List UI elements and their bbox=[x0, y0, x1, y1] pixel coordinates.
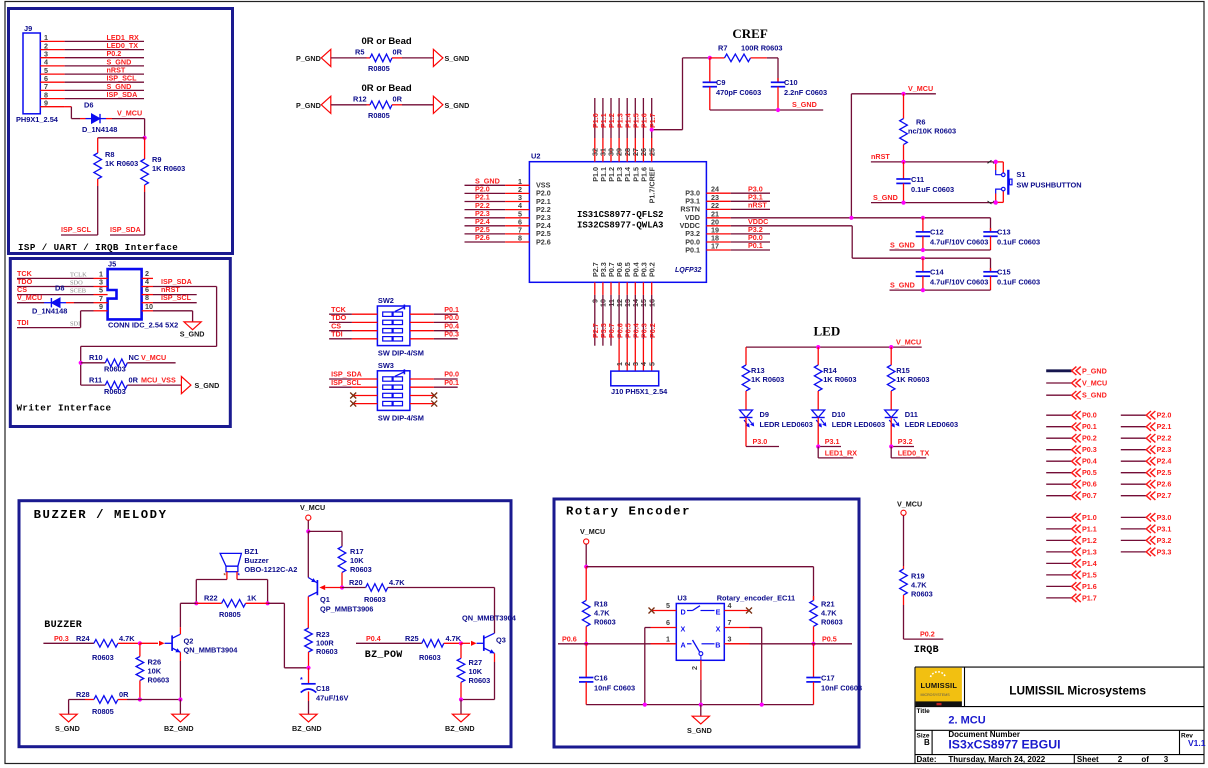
LED D9 LEDR LED0603 bbox=[740, 410, 753, 418]
svg-text:X: X bbox=[716, 624, 721, 633]
wire nRST row bbox=[871, 161, 996, 163]
node junction S_GND/C11 bbox=[901, 201, 905, 205]
svg-text:10: 10 bbox=[145, 302, 153, 311]
svg-text:P2.1: P2.1 bbox=[1157, 422, 1172, 431]
node junction R10 bbox=[79, 361, 83, 365]
svg-text:0R: 0R bbox=[129, 375, 139, 384]
svg-text:Thursday, March 24, 2022: Thursday, March 24, 2022 bbox=[948, 755, 1045, 764]
svg-text:R0603: R0603 bbox=[104, 365, 126, 374]
resistor R28 0R R0805 bbox=[69, 699, 85, 701]
node junction V_MCU/R6 bbox=[901, 92, 905, 96]
svg-text:P1.2: P1.2 bbox=[1082, 536, 1097, 545]
svg-text:R10: R10 bbox=[89, 353, 103, 362]
svg-text:of: of bbox=[1141, 755, 1149, 764]
svg-text:R27: R27 bbox=[469, 658, 483, 667]
U3 pin 3 wire bbox=[724, 643, 749, 645]
svg-text:S_GND: S_GND bbox=[55, 724, 80, 733]
svg-text:D10: D10 bbox=[832, 410, 846, 419]
svg-text:U3: U3 bbox=[677, 594, 686, 603]
svg-text:V_MCU: V_MCU bbox=[141, 353, 166, 362]
resistor R25 4.7K R0603 bbox=[422, 640, 444, 648]
resistor R19 4.7K R0603 bbox=[903, 566, 905, 569]
U2 left pins 1-8 bbox=[465, 184, 506, 186]
node junction VDD rail/V_MCU bbox=[849, 216, 853, 220]
svg-text:P2.7: P2.7 bbox=[1157, 491, 1172, 500]
svg-text:P2.6: P2.6 bbox=[475, 233, 490, 242]
svg-text:4.7K: 4.7K bbox=[389, 578, 405, 587]
node junction pin6 rail bbox=[643, 703, 647, 707]
ground arrow S_GND right of R12 bbox=[433, 96, 443, 113]
svg-text:P2.6: P2.6 bbox=[1157, 480, 1172, 489]
resistor R14 1K R0603 bbox=[817, 347, 819, 365]
section box Rotary Encoder bbox=[554, 499, 859, 747]
svg-text:P3.0: P3.0 bbox=[1157, 513, 1172, 522]
svg-text:P0.4: P0.4 bbox=[366, 634, 381, 643]
svg-text:*: * bbox=[238, 574, 241, 580]
svg-text:LED0_TX: LED0_TX bbox=[898, 448, 930, 457]
net label LED1_RX bbox=[817, 447, 819, 458]
U2 top pin wires P1.0-P1.7 bbox=[594, 98, 596, 138]
J5 pin 2 stub bbox=[142, 277, 153, 279]
LED D11 LEDR LED0603 bbox=[885, 410, 898, 418]
node junction pin2 rail bbox=[699, 703, 703, 707]
svg-text:S_GND: S_GND bbox=[445, 101, 470, 110]
svg-text:R13: R13 bbox=[751, 366, 765, 375]
svg-text:R21: R21 bbox=[821, 600, 835, 609]
port flag P2.7 bbox=[1121, 495, 1146, 497]
J5 pin 5 wire CS bbox=[94, 294, 108, 296]
ground S_GND under J5 pin10 bbox=[184, 322, 201, 330]
svg-text:QN_MMBT3904: QN_MMBT3904 bbox=[184, 646, 239, 655]
capacitor C17 10nF C0603 bbox=[813, 644, 815, 678]
resistor R5 0R R0805 bbox=[331, 57, 367, 59]
svg-text:Q1: Q1 bbox=[320, 595, 330, 604]
section box BUZZER / MELODY bbox=[19, 501, 511, 747]
svg-text:P0.1: P0.1 bbox=[748, 241, 763, 250]
J5 pin 8 wire ISP_SCL bbox=[142, 302, 153, 304]
svg-text:S_GND: S_GND bbox=[445, 54, 470, 63]
port flag P0.5 bbox=[1046, 472, 1071, 474]
svg-text:8: 8 bbox=[518, 234, 522, 243]
svg-text:Title: Title bbox=[917, 708, 931, 715]
svg-text:5: 5 bbox=[666, 601, 670, 610]
ground BZ_GND under Q3 bbox=[452, 714, 469, 722]
transistor Q1 QP_MMBT3906 bbox=[307, 531, 309, 577]
svg-text:X: X bbox=[681, 624, 686, 633]
wire ISP_SDA loop down to R10/R11 bbox=[216, 287, 218, 347]
svg-text:BZ1: BZ1 bbox=[244, 547, 258, 556]
diode D6 D_1N4148 bbox=[80, 118, 86, 120]
port flag P0.6 bbox=[1046, 483, 1071, 485]
svg-text:LED1_RX: LED1_RX bbox=[825, 448, 858, 457]
capacitor C13 0.1uF C0603 bbox=[990, 218, 992, 232]
node junction V_MCU rotary bbox=[584, 565, 588, 569]
capacitor C10 2.2nF C0603 bbox=[777, 58, 779, 82]
svg-text:Q2: Q2 bbox=[184, 637, 194, 646]
section box Writer Interface bbox=[10, 259, 230, 427]
transistor Q2 QN_MMBT3904 bbox=[159, 641, 165, 646]
svg-text:3: 3 bbox=[728, 634, 732, 643]
svg-text:V_MCU: V_MCU bbox=[580, 527, 605, 536]
svg-text:C10: C10 bbox=[784, 78, 798, 87]
svg-text:P3.2: P3.2 bbox=[898, 437, 913, 446]
svg-text:BZ_POW: BZ_POW bbox=[365, 650, 403, 661]
svg-text:P1.3: P1.3 bbox=[1082, 547, 1097, 556]
svg-text:*: * bbox=[300, 677, 303, 684]
wire S_GND rail under C14/C15 bbox=[890, 289, 991, 291]
svg-text:P0.6: P0.6 bbox=[562, 634, 577, 643]
svg-text:P0.2: P0.2 bbox=[648, 262, 657, 277]
resistor R21 4.7K R0603 bbox=[813, 567, 815, 601]
port flag P1.4 bbox=[1046, 562, 1071, 564]
svg-text:R0603: R0603 bbox=[350, 565, 372, 574]
svg-text:nc/10K R0603: nc/10K R0603 bbox=[908, 127, 956, 136]
SW2 row 3 wires bbox=[352, 330, 378, 332]
svg-text:LUMISSIL Microsystems: LUMISSIL Microsystems bbox=[1009, 684, 1146, 698]
svg-text:0R or Bead: 0R or Bead bbox=[362, 83, 412, 94]
switch S1 SW PUSHBUTTON bbox=[988, 160, 998, 163]
svg-text:TDI: TDI bbox=[17, 318, 29, 327]
J9 pin 1 wire bbox=[40, 40, 64, 42]
resistor R13 1K R0603 bbox=[745, 347, 747, 365]
svg-text:R0603: R0603 bbox=[821, 618, 843, 627]
svg-text:P0.0: P0.0 bbox=[1082, 411, 1097, 420]
node junction V_MCU/R8/R9 bbox=[143, 136, 147, 140]
port flag P1.5 bbox=[1046, 574, 1071, 576]
net label LED0_TX bbox=[890, 447, 892, 458]
wire Q2 emitter junction bbox=[140, 699, 181, 701]
wire to R17 bbox=[308, 530, 342, 532]
resistor R22 1K R0805 bbox=[196, 602, 221, 604]
svg-text:P2.5: P2.5 bbox=[1157, 468, 1172, 477]
svg-text:S_GND: S_GND bbox=[873, 193, 898, 202]
svg-text:4: 4 bbox=[728, 601, 732, 610]
svg-text:470pF C0603: 470pF C0603 bbox=[716, 88, 761, 97]
capacitor C14 4.7uF/10V C0603 bbox=[922, 258, 924, 272]
svg-text:BZ_GND: BZ_GND bbox=[292, 724, 322, 733]
capacitor C18 47uF/16V polarized bbox=[308, 668, 310, 684]
svg-text:P1.0: P1.0 bbox=[1082, 513, 1097, 522]
svg-text:CREF: CREF bbox=[732, 26, 767, 41]
svg-text:SDI: SDI bbox=[70, 321, 80, 328]
svg-text:C12: C12 bbox=[930, 228, 944, 237]
wire rotary bottom rail bbox=[586, 704, 813, 706]
svg-text:P3.1: P3.1 bbox=[825, 437, 840, 446]
resistor R24 4.7K R0603 bbox=[94, 640, 118, 648]
port flag P1.6 bbox=[1046, 585, 1071, 587]
svg-text:SW DIP-4/SM: SW DIP-4/SM bbox=[378, 413, 424, 422]
J5 pin 3 wire TDO bbox=[94, 286, 108, 288]
node junction nRST/C11 bbox=[901, 160, 905, 164]
wire P0.5 row bbox=[724, 643, 852, 645]
SW2 row 2 wires bbox=[352, 321, 378, 323]
svg-text:ISP_SCL: ISP_SCL bbox=[61, 225, 92, 234]
U3 pin 6 wire bbox=[651, 627, 677, 629]
svg-text:Sheet: Sheet bbox=[1077, 755, 1099, 764]
resistor R12 0R R0805 bbox=[331, 104, 367, 106]
SW2 row 1 wires bbox=[352, 313, 378, 315]
svg-text:P1.6: P1.6 bbox=[1082, 582, 1097, 591]
svg-text:B: B bbox=[924, 738, 930, 747]
svg-text:J10 PH5X1_2.54: J10 PH5X1_2.54 bbox=[611, 387, 668, 396]
svg-text:P0.1: P0.1 bbox=[444, 378, 459, 387]
svg-text:BZ_GND: BZ_GND bbox=[164, 724, 194, 733]
svg-text:SW PUSHBUTTON: SW PUSHBUTTON bbox=[1016, 181, 1081, 190]
J9 pin 2 wire bbox=[40, 49, 64, 51]
U2 bottom pins 9-16 bbox=[594, 282, 596, 295]
net label P3.0 bbox=[745, 418, 747, 447]
svg-text:SDO: SDO bbox=[70, 280, 83, 287]
svg-text:C18: C18 bbox=[316, 684, 330, 693]
svg-text:17: 17 bbox=[711, 242, 719, 251]
svg-text:IS3xCS8977 EBGUI: IS3xCS8977 EBGUI bbox=[948, 738, 1060, 752]
port flag P1.0 bbox=[1046, 516, 1071, 518]
power flag P_GND bbox=[1046, 369, 1071, 372]
svg-text:P0.2: P0.2 bbox=[648, 323, 657, 338]
svg-text:P0.6: P0.6 bbox=[1082, 480, 1097, 489]
port flag P2.0 bbox=[1121, 414, 1146, 416]
rotary encoder U3 Rotary_encoder_EC11 bbox=[676, 604, 724, 661]
U3 bottom switch symbol bbox=[687, 643, 692, 645]
capacitor C15 0.1uF C0603 bbox=[990, 258, 992, 272]
resistor R18 4.7K R0603 bbox=[585, 567, 587, 601]
J9 pin 3 wire bbox=[40, 57, 64, 59]
svg-text:D: D bbox=[681, 607, 686, 616]
logo LUMISSIL bbox=[916, 668, 962, 702]
svg-text:Rotary Encoder: Rotary Encoder bbox=[566, 505, 691, 519]
svg-text:10K: 10K bbox=[350, 556, 364, 565]
power flag V_MCU bbox=[1046, 382, 1071, 384]
svg-text:LQFP32: LQFP32 bbox=[675, 267, 702, 274]
svg-text:0R or Bead: 0R or Bead bbox=[362, 36, 412, 47]
MCU U2 IS31CS8977 body bbox=[529, 162, 706, 283]
node junction R21/P0.5 row bbox=[811, 642, 815, 646]
port flag P3.1 bbox=[1121, 528, 1146, 530]
svg-text:4.7uF/10V C0603: 4.7uF/10V C0603 bbox=[930, 278, 988, 287]
svg-text:C15: C15 bbox=[997, 268, 1011, 277]
svg-text:R26: R26 bbox=[148, 658, 162, 667]
J5 pin 1 wire TCK bbox=[94, 277, 108, 279]
svg-text:QP_MMBT3906: QP_MMBT3906 bbox=[320, 605, 373, 614]
svg-text:P0.5: P0.5 bbox=[1082, 468, 1097, 477]
svg-text:2: 2 bbox=[1118, 755, 1123, 764]
svg-text:IS31CS8977-QFLS2: IS31CS8977-QFLS2 bbox=[577, 210, 663, 220]
port flag P2.1 bbox=[1121, 426, 1146, 428]
node junction nRST/S1 bbox=[994, 160, 998, 164]
svg-text:Writer Interface: Writer Interface bbox=[17, 403, 112, 414]
U3 pin 1 wire bbox=[651, 643, 677, 645]
svg-text:S1: S1 bbox=[1016, 170, 1025, 179]
node junction C10 bottom bbox=[776, 108, 780, 112]
wire VDD pin21 rail to C12/C13 bbox=[731, 217, 991, 219]
power flag S_GND bbox=[1046, 394, 1071, 396]
wires U2 pins 12-16 down to J10 bbox=[618, 295, 620, 339]
svg-text:2. MCU: 2. MCU bbox=[948, 715, 985, 727]
node junction R7/C9 bbox=[708, 56, 712, 60]
svg-text:S_GND: S_GND bbox=[180, 330, 205, 339]
resistor R11 0R R0603 MCU_VSS bbox=[81, 384, 106, 386]
resistor R26 10K R0603 bbox=[139, 643, 141, 656]
svg-text:4.7K: 4.7K bbox=[119, 634, 135, 643]
connector J5 CONN IDC_2.54 5X2 bbox=[108, 269, 142, 319]
node junction R23/C18 bbox=[306, 666, 310, 670]
svg-text:V_MCU: V_MCU bbox=[896, 338, 921, 347]
wire P0.4 to R25 bbox=[356, 642, 422, 644]
svg-text:J9: J9 bbox=[24, 24, 32, 33]
SW2 row 4 wires bbox=[352, 338, 378, 340]
port flag P3.2 bbox=[1121, 539, 1146, 541]
J5 pin 4 wire ISP_SDA bbox=[142, 286, 153, 288]
svg-text:P0.5: P0.5 bbox=[822, 634, 837, 643]
port flag P0.7 bbox=[1046, 495, 1071, 497]
net labels P2.7 P3.3 P0.7 vertical stubs bbox=[594, 295, 596, 346]
node junction C12 top bbox=[921, 216, 925, 220]
node junction R24/R26 bbox=[138, 641, 142, 645]
resistor R6 nc/10K R0603 bbox=[903, 94, 905, 119]
wire V_MCU down to C12 rail bbox=[850, 94, 852, 218]
port flag P1.3 bbox=[1046, 551, 1071, 553]
port flag P0.2 bbox=[1046, 437, 1071, 439]
svg-text:ISP_SCL: ISP_SCL bbox=[331, 378, 362, 387]
wire V_MCU down to R8/R9 node bbox=[144, 119, 146, 138]
ground BZ_GND under C18 bbox=[300, 714, 317, 722]
svg-text:R25: R25 bbox=[405, 634, 419, 643]
wire P0.6 row bbox=[558, 643, 676, 645]
wire S_GND row under S1 bbox=[871, 202, 996, 204]
svg-text:BUZZER / MELODY: BUZZER / MELODY bbox=[34, 508, 168, 522]
svg-text:OBO-1212C-A2: OBO-1212C-A2 bbox=[244, 565, 297, 574]
svg-text:3: 3 bbox=[1164, 755, 1169, 764]
svg-text:V_MCU: V_MCU bbox=[300, 503, 325, 512]
DIP switch SW3 SW DIP-4/SM bbox=[377, 371, 410, 411]
svg-text:LUMISSIL: LUMISSIL bbox=[921, 681, 958, 690]
svg-text:V_MCU: V_MCU bbox=[117, 109, 142, 118]
buzzer BZ1 OBO-1212C-A2 bbox=[220, 553, 241, 566]
svg-text:P1.7: P1.7 bbox=[1082, 593, 1097, 602]
svg-text:P2.4: P2.4 bbox=[1157, 457, 1172, 466]
svg-text:QN_MMBT3904: QN_MMBT3904 bbox=[462, 614, 517, 623]
svg-text:R5: R5 bbox=[355, 48, 364, 57]
node junction C14 top bbox=[921, 256, 925, 260]
svg-text:1K R0603: 1K R0603 bbox=[152, 164, 185, 173]
svg-text:B: B bbox=[715, 641, 720, 650]
svg-text:C9: C9 bbox=[716, 78, 725, 87]
LED D10 LEDR LED0603 bbox=[812, 410, 825, 418]
ground BZ_GND under Q2 bbox=[172, 714, 189, 722]
svg-text:R0805: R0805 bbox=[92, 707, 114, 716]
svg-text:C17: C17 bbox=[821, 674, 835, 683]
port flag P2.3 bbox=[1121, 449, 1146, 451]
port flag P0.3 bbox=[1046, 449, 1071, 451]
svg-text:9: 9 bbox=[99, 302, 103, 311]
svg-text:0.1uF C0603: 0.1uF C0603 bbox=[911, 185, 954, 194]
capacitor C11 0.1uF C0603 bbox=[903, 162, 905, 179]
svg-text:P1.5: P1.5 bbox=[1082, 570, 1097, 579]
svg-text:R0805: R0805 bbox=[368, 111, 390, 120]
svg-text:10K: 10K bbox=[148, 667, 162, 676]
svg-text:1K R0603: 1K R0603 bbox=[896, 375, 929, 384]
svg-text:1: 1 bbox=[666, 634, 670, 643]
svg-text:0R: 0R bbox=[119, 690, 129, 699]
svg-text:C14: C14 bbox=[930, 268, 944, 277]
U3 pin 7 wire bbox=[724, 627, 749, 629]
svg-text:R11: R11 bbox=[89, 375, 102, 384]
svg-text:IS32CS8977-QWLA3: IS32CS8977-QWLA3 bbox=[577, 221, 663, 231]
J9 pin 6 wire bbox=[40, 81, 64, 83]
svg-text:D_1N4148: D_1N4148 bbox=[82, 125, 117, 134]
transistor Q3 QN_MMBT3904 bbox=[471, 641, 477, 646]
port flag P0.1 bbox=[1046, 426, 1071, 428]
J9 pin 8 wire bbox=[40, 98, 64, 100]
svg-text:R7: R7 bbox=[718, 44, 727, 53]
svg-text:P0.1: P0.1 bbox=[1082, 422, 1097, 431]
svg-text:P0.2: P0.2 bbox=[920, 630, 935, 639]
svg-text:7: 7 bbox=[728, 618, 732, 627]
svg-text:nRST: nRST bbox=[871, 152, 890, 161]
capacitor C16 10nF C0603 bbox=[585, 644, 587, 678]
svg-text:P0.2: P0.2 bbox=[1082, 434, 1097, 443]
wire rotary top rail bbox=[586, 566, 813, 568]
svg-text:0.1uF C0603: 0.1uF C0603 bbox=[997, 278, 1040, 287]
svg-text:0R: 0R bbox=[393, 94, 403, 103]
svg-text:TDI: TDI bbox=[331, 329, 343, 338]
svg-text:TCLK: TCLK bbox=[70, 272, 87, 279]
svg-text:P3.2: P3.2 bbox=[1157, 536, 1172, 545]
wire R28 to S_GND bbox=[68, 700, 70, 715]
svg-text:R20: R20 bbox=[349, 578, 363, 587]
node junction R15 top bbox=[889, 345, 893, 349]
svg-text:D9: D9 bbox=[760, 410, 769, 419]
svg-text:D8: D8 bbox=[55, 284, 64, 293]
svg-text:P2.3: P2.3 bbox=[1157, 445, 1172, 454]
section box ISP/UART/IRQB Interface bbox=[9, 9, 233, 254]
svg-text:PH9X1_2.54: PH9X1_2.54 bbox=[16, 115, 59, 124]
svg-text:P0.7: P0.7 bbox=[1082, 491, 1097, 500]
U3 pin 5 wire with X bbox=[652, 610, 676, 612]
DIP switch SW2 SW DIP-4/SM bbox=[377, 306, 410, 346]
svg-text:25: 25 bbox=[647, 148, 656, 156]
ground S_GND rotary bbox=[692, 716, 709, 724]
svg-text:A: A bbox=[681, 641, 686, 650]
svg-text:S_GND: S_GND bbox=[890, 240, 915, 249]
svg-text:R0603: R0603 bbox=[419, 653, 441, 662]
svg-text:10nF C0603: 10nF C0603 bbox=[594, 684, 635, 693]
U3 top switch symbol bbox=[687, 610, 693, 612]
svg-text:R0603: R0603 bbox=[316, 647, 338, 656]
node junction R27 bottom bbox=[459, 697, 463, 701]
svg-text:4.7uF/10V C0603: 4.7uF/10V C0603 bbox=[930, 238, 988, 247]
svg-text:R9: R9 bbox=[152, 155, 161, 164]
resistor R20 4.7K R0603 bbox=[342, 587, 366, 589]
svg-text:E: E bbox=[716, 607, 721, 616]
capacitor C9 470pF C0603 bbox=[709, 58, 711, 82]
resistor R27 10K R0603 bbox=[460, 643, 462, 658]
svg-text:1K R0603: 1K R0603 bbox=[751, 375, 784, 384]
port flag P3.0 bbox=[1121, 516, 1146, 518]
svg-text:MICROSYSTEMS: MICROSYSTEMS bbox=[921, 693, 951, 697]
svg-text:R0603: R0603 bbox=[92, 653, 114, 662]
svg-text:P0.3: P0.3 bbox=[1082, 445, 1097, 454]
svg-text:R19: R19 bbox=[911, 572, 925, 581]
wire CREF bottom rail to S_GND bbox=[710, 109, 823, 111]
svg-text:P3.0: P3.0 bbox=[753, 437, 768, 446]
svg-text:V_MCU: V_MCU bbox=[897, 500, 922, 509]
svg-text:nRST: nRST bbox=[748, 201, 767, 210]
svg-text:P1.4: P1.4 bbox=[1082, 559, 1097, 568]
svg-text:2.2nF C0603: 2.2nF C0603 bbox=[784, 88, 827, 97]
node junction R22 left bbox=[194, 601, 198, 605]
svg-text:C13: C13 bbox=[997, 228, 1011, 237]
